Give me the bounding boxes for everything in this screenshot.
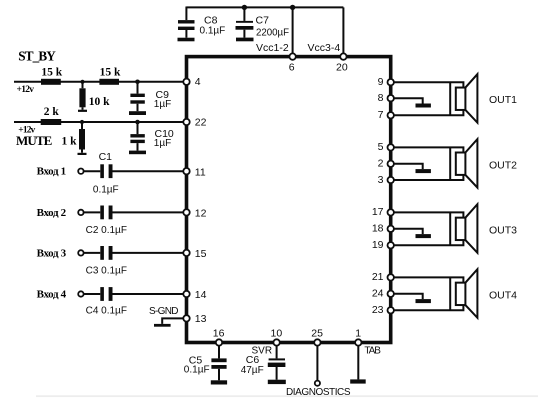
svg-text:2200µF: 2200µF [256,27,289,38]
pin 3 [388,177,394,183]
wire: pin 5 to speaker 2 [394,147,464,152]
pin 20 [340,53,346,59]
svg-text:1µF: 1µF [154,138,171,149]
wire: C1 to pin 11 [113,170,184,172]
pin 7 [388,112,394,118]
OUT2 block [378,139,518,188]
ground (pin 2) [416,169,431,173]
svg-text:21: 21 [372,271,384,283]
wire: pin 13 to signal ground [162,318,183,324]
capacitor C5 0.1µF [184,346,227,381]
wire: pin 3 to speaker 2 [394,175,464,180]
wire: pin 18 to ground [394,229,423,234]
ground (pin 18) [416,234,431,238]
wire: pin 19 to speaker 3 [394,240,464,245]
junction: C9 on ST_BY line [135,80,140,85]
pin 4 [183,79,189,85]
svg-text:Вход 4: Вход 4 [37,289,67,301]
svg-text:C8: C8 [204,14,218,26]
pin 13 [183,315,189,321]
svg-text:5: 5 [378,141,384,153]
svg-text:+12v: +12v [17,85,35,95]
pin 9 [388,79,394,85]
svg-text:0.1µF: 0.1µF [200,26,226,37]
resistor 15 k (first) [41,79,61,85]
wire: pin 2 to ground [394,164,423,169]
capacitor C7 2200µF [236,7,290,38]
wire: pin 21 to speaker 4 [394,277,464,282]
wire: ST_BY line to pin 4 [14,81,183,83]
speaker LS1 cone [465,74,477,123]
speaker LS1 magnet [456,88,466,110]
svg-text:12: 12 [195,208,207,220]
node: input 3 terminal [78,250,83,255]
svg-text:+12v: +12v [18,125,35,135]
wire: pin 7 to speaker 1 [394,110,464,115]
pin 11 [183,168,189,174]
wire: input 2 to C2 [84,211,101,213]
pin 12 [183,209,189,215]
wire: C2 to pin 12 [113,211,184,213]
pin 10 [273,339,279,345]
wire: pin 1 to ground [357,346,359,380]
resistor 15 k (second) [99,79,119,85]
OUT1 block [378,74,518,123]
pin 8 [388,95,394,101]
pin 18 [388,226,394,232]
svg-text:8: 8 [378,92,384,104]
svg-text:16: 16 [213,327,225,339]
svg-text:19: 19 [372,239,384,251]
ground (TAB) [350,379,366,383]
wire: pin 17 to speaker 3 [394,212,464,217]
speaker LS1 frame [449,82,451,115]
svg-text:Vcc3-4: Vcc3-4 [308,42,341,54]
node: input 1 terminal [78,169,83,174]
svg-text:10 k: 10 k [89,96,110,108]
node: DIAGNOSTICS terminal [315,381,320,386]
junction: C7 to Vcc bus [242,5,247,10]
resistor 1 k [62,122,86,153]
wire: pin 24 to ground [394,294,423,299]
capacitor C3 0.1µF [100,246,104,260]
svg-text:ST_BY: ST_BY [18,48,56,63]
wire: input 3 to C3 [84,252,101,254]
svg-text:Vcc1-2: Vcc1-2 [256,42,289,54]
svg-text:15 k: 15 k [100,67,121,79]
svg-text:3: 3 [378,174,384,186]
wire: input 1 to C1 [84,170,101,172]
svg-text:2: 2 [378,158,384,170]
wire: pin 9 to speaker 1 [394,82,464,87]
svg-text:C2 0.1µF: C2 0.1µF [86,225,127,236]
svg-text:TAB: TAB [364,346,381,357]
svg-text:20: 20 [336,61,348,73]
resistor 10 k [79,82,110,110]
svg-text:OUT1: OUT1 [489,94,517,106]
wire: pin 23 to speaker 4 [394,305,464,310]
capacitor C8 0.1µF [178,7,225,38]
wire: Vcc bus to pin 20 [342,7,344,53]
svg-text:7: 7 [378,109,384,121]
wire: pin 25 to DIAGNOSTICS terminal [316,346,318,381]
input row 1 [37,151,206,195]
capacitor C1 0.1µF [100,164,104,178]
input row 3 [37,246,207,276]
wire: C4 to pin 14 [113,293,184,295]
junction: pin 6 branch [290,5,295,10]
junction: 1k on MUTE line [80,120,84,124]
svg-text:9: 9 [378,76,384,88]
svg-text:Вход 1: Вход 1 [37,166,67,178]
svg-text:0.1µF: 0.1µF [184,365,210,376]
svg-text:Вход 2: Вход 2 [37,207,67,219]
svg-text:1 k: 1 k [62,136,78,148]
svg-text:15: 15 [195,248,207,260]
junction: 10k on ST_BY line [80,80,84,84]
svg-text:24: 24 [372,288,384,300]
ground (10k) [78,110,87,112]
IC U1 power amplifier body [187,57,391,343]
pin 14 [183,291,189,297]
svg-text:C1: C1 [99,151,113,163]
svg-text:1µF: 1µF [154,99,171,110]
pin 21 [388,274,394,280]
ground (C10) [129,151,146,155]
ground (C8) [178,38,195,42]
pin 19 [388,242,394,248]
svg-text:6: 6 [289,61,295,73]
svg-text:C7: C7 [256,14,270,26]
svg-text:2 k: 2 k [44,106,60,118]
capacitor C4 0.1µF [100,287,104,301]
wire: input 4 to C4 [84,293,101,295]
capacitor C10 1µF [130,122,174,151]
svg-text:S-GND: S-GND [149,306,179,317]
ground (pin 8) [416,104,431,108]
svg-text:15 k: 15 k [41,67,62,79]
ground (S-GND) [154,324,171,327]
speaker LS2 frame [449,147,451,180]
capacitor C9 1µF [130,82,171,111]
pin 17 [388,209,394,215]
svg-text:23: 23 [372,304,384,316]
svg-text:14: 14 [195,289,207,301]
ground (C5) [211,380,227,384]
speaker LS4 frame [449,277,451,310]
svg-text:Вход 3: Вход 3 [37,247,67,259]
speaker LS4 cone [465,269,477,318]
svg-text:4: 4 [195,76,201,88]
speaker LS3 cone [465,204,477,253]
ground (pin 24) [416,299,431,303]
wire: Vcc bus to pin 6 [292,7,294,53]
svg-text:OUT4: OUT4 [489,289,517,301]
OUT4 block [372,269,517,318]
svg-text:OUT3: OUT3 [489,224,517,236]
svg-text:13: 13 [195,313,207,325]
svg-text:18: 18 [372,223,384,235]
pin 22 [183,119,189,125]
wire: C3 to pin 15 [113,252,184,254]
svg-text:10: 10 [271,327,283,339]
pin 15 [183,250,189,256]
input row 2 [37,206,207,237]
junction: C10 on MUTE line [135,120,140,125]
speaker LS3 frame [449,212,451,245]
svg-text:22: 22 [195,116,207,128]
svg-text:11: 11 [195,166,206,178]
speaker LS4 magnet [456,283,466,305]
wire: pin 8 to ground [394,98,423,103]
pin 25 [314,339,320,345]
speaker LS2 magnet [456,153,466,175]
wire: MUTE line to pin 22 [14,121,183,123]
capacitor C2 0.1µF [100,206,104,220]
svg-text:17: 17 [372,206,384,218]
pin 1 [355,339,361,345]
svg-text:0.1µF: 0.1µF [93,184,119,195]
ground (C7) [236,38,254,42]
speaker LS3 magnet [456,218,466,240]
node: input 2 terminal [78,210,83,215]
pin 2 [388,161,394,167]
pin 5 [388,144,394,150]
ground (1k) [78,153,87,155]
svg-text:C4 0.1µF: C4 0.1µF [86,306,127,317]
speaker LS2 cone [465,139,477,188]
OUT3 block [372,204,517,253]
pin 16 [216,339,222,345]
svg-text:C3 0.1µF: C3 0.1µF [86,265,127,276]
ground (C6) [268,380,286,384]
svg-text:OUT2: OUT2 [489,159,517,171]
capacitor C6 47µF [241,346,286,380]
input row 4 [37,287,207,316]
wire: top Vcc bus [186,6,343,8]
pin 6 [289,53,295,59]
svg-text:1: 1 [355,327,361,339]
ground (C9) [129,111,146,115]
pin 23 [388,307,394,313]
node: input 4 terminal [78,291,83,296]
pin 24 [388,291,394,297]
svg-text:25: 25 [311,327,323,339]
resistor 2 k [41,119,62,125]
svg-text:47µF: 47µF [241,365,264,376]
